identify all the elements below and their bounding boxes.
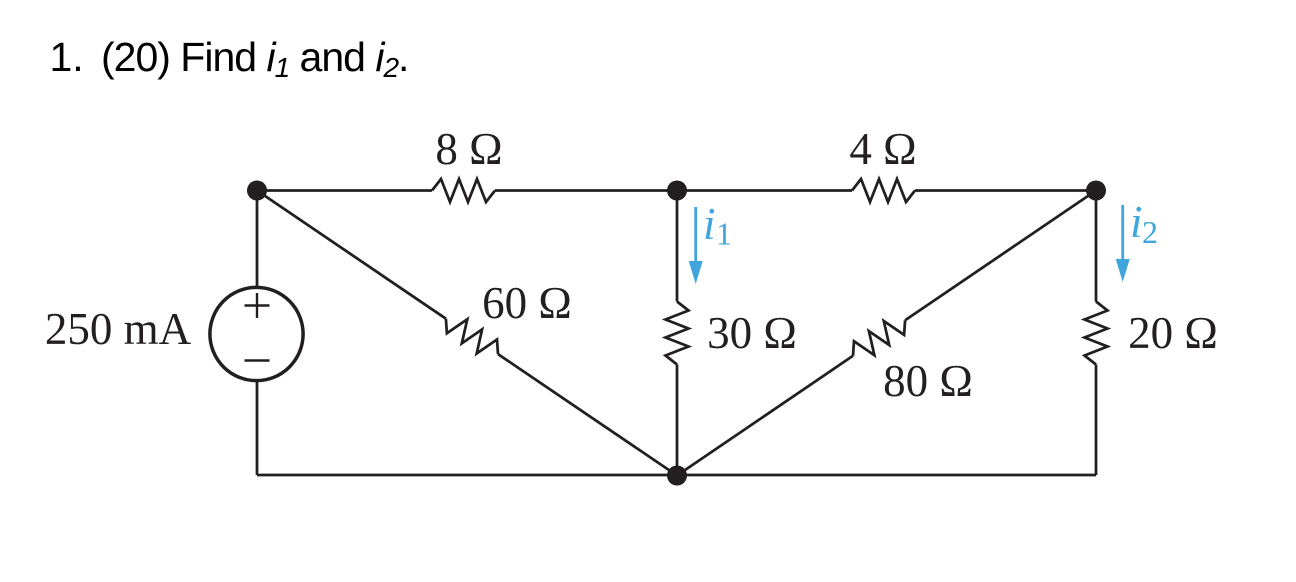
wire source - terminal to bottom-left corner bbox=[256, 381, 259, 476]
svg-text:i: i bbox=[703, 199, 716, 249]
svg-text:30 Ω: 30 Ω bbox=[707, 308, 797, 358]
wire R1 to middle node bbox=[495, 189, 677, 192]
resistor R2 4 ohm bbox=[852, 179, 915, 202]
svg-text:2: 2 bbox=[1142, 214, 1158, 250]
source minus sign bbox=[245, 359, 270, 361]
wire R4 to bottom node diagonal bbox=[498, 354, 677, 475]
node A top-left junction dot bbox=[247, 181, 267, 201]
source plus sign bbox=[245, 293, 270, 318]
resistor R4 60 ohm bbox=[446, 319, 498, 354]
node D bottom junction dot bbox=[667, 466, 687, 486]
node C top-right junction dot bbox=[1086, 181, 1106, 201]
wire middle node down to R3 bbox=[676, 191, 679, 302]
svg-text:60 Ω: 60 Ω bbox=[482, 278, 572, 328]
wire R3 to bottom node bbox=[676, 365, 679, 476]
node B top-middle junction dot bbox=[667, 181, 687, 201]
svg-text:1: 1 bbox=[716, 216, 732, 252]
svg-text:4 Ω: 4 Ω bbox=[849, 124, 916, 174]
current arrow i2 bbox=[1121, 205, 1124, 260]
bottom wire bbox=[257, 474, 1096, 477]
wire R6 to bottom-right corner bbox=[1095, 365, 1098, 476]
current arrow i1 bbox=[694, 207, 697, 262]
svg-text:250 mA: 250 mA bbox=[45, 304, 192, 354]
svg-text:(20) Find i1 and i2.: (20) Find i1 and i2. bbox=[101, 34, 408, 83]
wire R5 to top-right node diagonal bbox=[905, 191, 1096, 321]
svg-text:i: i bbox=[1130, 197, 1143, 247]
resistor R1 8 ohm bbox=[432, 179, 495, 202]
svg-text:80 Ω: 80 Ω bbox=[883, 356, 973, 406]
resistor R5 80 ohm bbox=[853, 320, 905, 356]
current source I1 circle bbox=[210, 287, 303, 380]
wire R2 to top-right node bbox=[915, 189, 1096, 192]
wire top-left node to source + terminal bbox=[256, 191, 259, 289]
svg-text:20 Ω: 20 Ω bbox=[1128, 308, 1218, 358]
resistor R6 20 ohm bbox=[1085, 302, 1108, 365]
wire top-left node to R1 bbox=[257, 189, 432, 192]
wire middle node to R2 bbox=[677, 189, 852, 192]
wire top-left node to R4 diagonal bbox=[257, 191, 446, 319]
wire top-right node down to R6 bbox=[1095, 191, 1098, 302]
resistor R3 30 ohm bbox=[666, 302, 689, 365]
wire bottom node to R5 diagonal bbox=[677, 356, 853, 476]
svg-text:8 Ω: 8 Ω bbox=[435, 124, 502, 174]
svg-text:1.: 1. bbox=[50, 34, 84, 80]
